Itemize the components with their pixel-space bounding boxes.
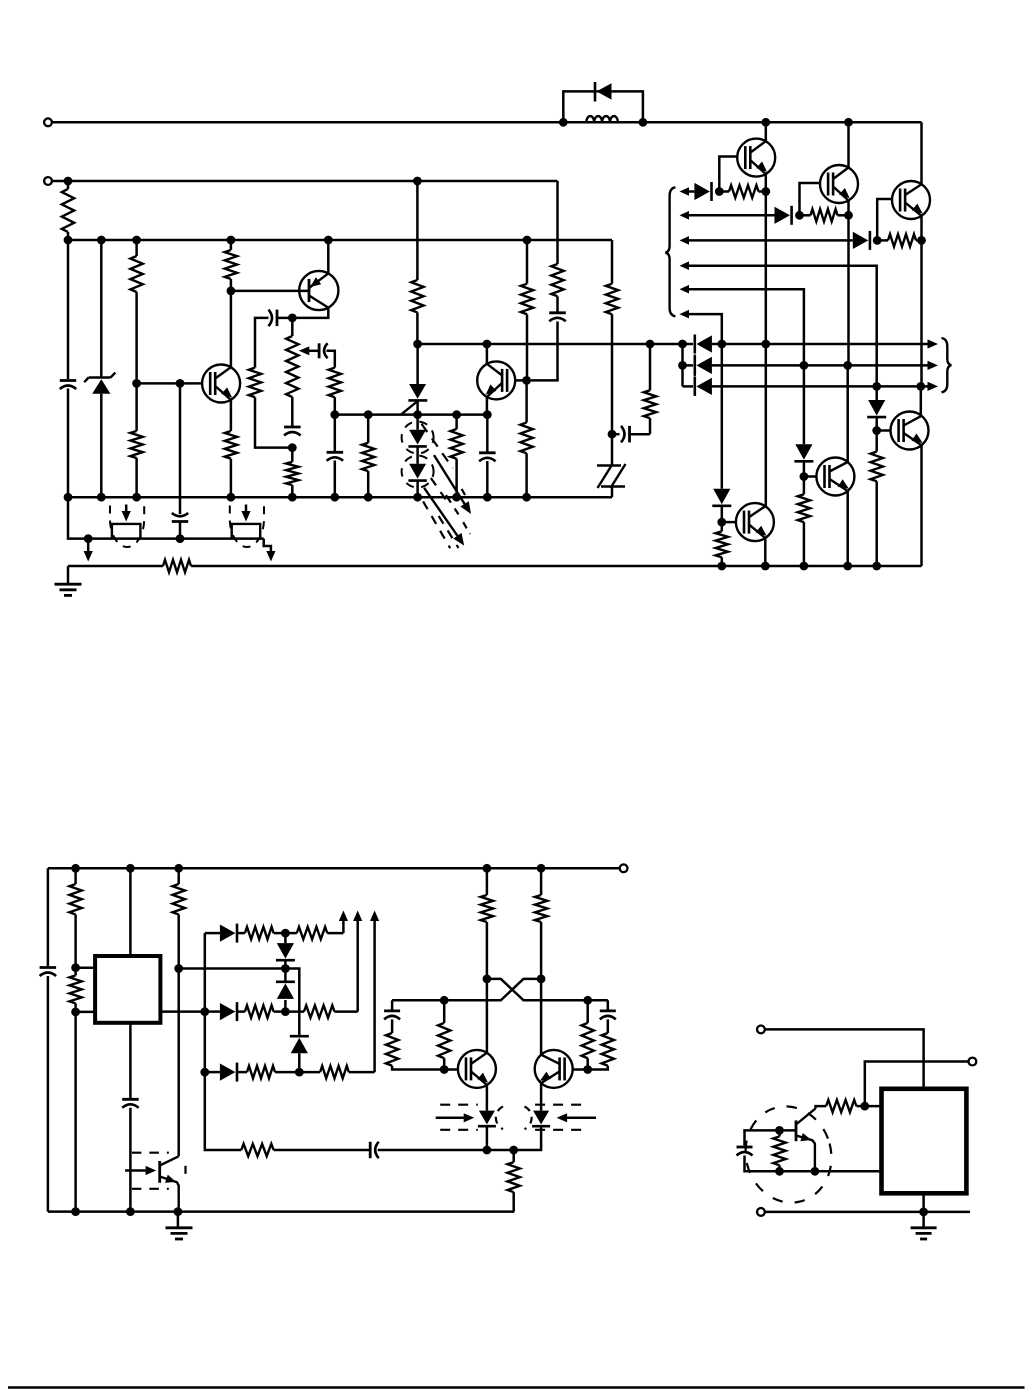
trimmer RT1 dashed outline [110,506,144,548]
wire QC base [780,1129,797,1132]
wire y968 corner [285,969,299,1037]
resistor R23 [69,968,81,1012]
phototransistor PT1 [160,1156,179,1211]
arrow winding row 6 [680,310,690,319]
node Q7 collector junction [227,287,236,296]
diode D1 [694,182,711,201]
wire Q8 collector to cap [292,308,328,318]
wire pin2 stub [76,1011,96,1014]
node LR ground [919,1208,928,1217]
wire cross 1 [487,979,608,1000]
node QC base [775,1126,784,1135]
wire second rail [52,180,558,183]
diode D4 column [721,344,724,489]
transistor Q1 [737,139,775,177]
diode D6 [867,400,886,417]
node IC pin2 [71,1008,80,1017]
wire column x205 [204,933,207,1150]
wire Q9 collector [486,344,489,364]
transistor Q4 [736,503,774,541]
node trim x180 [176,534,185,543]
capacitor C3 [269,310,278,327]
node left net top [440,996,449,1005]
trimmer RT2 wiper arrow [241,505,250,522]
resistor R15 [551,264,563,296]
LED PC1 (emitting) [408,415,426,464]
node rowL3 left [200,1068,209,1077]
wire column x848 mid [847,215,850,365]
node rowL1 mid [281,929,290,938]
node second rail R2 top [64,177,73,186]
node bus-bottom x101 [97,493,106,502]
diode D5 [794,444,813,461]
diode D6 column [875,386,878,400]
terminal input A [44,118,52,126]
transistor Q2 [820,165,858,203]
resistor R24 [173,868,185,968]
node bus-bottom x487 [483,493,492,502]
node y344 x487 [483,340,492,349]
capacitor C5 (pot bottom) [284,426,301,436]
trimmer RT2 dashed outline [230,506,264,548]
wire column x921 mid [920,240,923,386]
node chain x487 [483,1146,492,1155]
wire y968 line [179,967,286,970]
node on top rail (Q1 collector) [761,118,770,127]
transistor Q3 [892,181,930,219]
capacitor C6 column [334,415,337,498]
node y414 x487 [483,410,492,419]
wire x557 column [556,181,559,264]
wire row C right [712,385,929,388]
diode D5 column [803,365,806,444]
ground symbol 2 [166,1228,193,1239]
node row1 x766 [761,187,770,196]
node right net bottom [583,1065,592,1074]
resistor R25 [237,927,286,939]
resistor R3 (x137 upper) [130,240,142,383]
arrow winding row 5 [680,285,690,294]
resistor R27 [237,1005,286,1017]
trimmer RT1 wiper arrow [122,505,131,522]
wire chain to astable [378,1149,487,1152]
zener diode ZD1 [84,373,115,394]
page footer rule [8,1386,1025,1389]
resistor R17 (x650) [644,344,656,434]
wire row6 [688,314,722,344]
node rowC x921 [916,382,925,391]
node Q5 base tap [800,472,809,481]
node Q6 base tap [872,426,881,435]
diode D9 (row B) [695,356,712,375]
capacitor C8 [549,296,566,321]
wire chain 487-514 [487,1149,514,1152]
light dash lines [422,424,471,548]
resistor R19 [798,477,810,567]
wire top rail right corner [920,122,923,184]
resistor R28 [285,1005,357,1017]
diode D4 [712,489,731,506]
resistor R18 [716,522,728,566]
transistor QA [458,1050,496,1088]
wire C3 to R7 loop [255,318,269,368]
ground symbol 3 [911,1228,937,1239]
capacitor C13 [384,1000,400,1019]
arrow to ground line 1 [84,539,93,562]
brace left [665,187,675,316]
wire column x766 low [765,344,768,506]
wire QA collector [486,979,489,1053]
capacitor C11 [122,1099,139,1108]
node bus-bottom x137 [132,493,141,502]
arrow up 2 [353,911,362,1012]
node y414 x457 [452,410,461,419]
resistor R40 [773,1130,785,1171]
pot wiper arrow [299,346,319,355]
resistor R29 [237,1066,299,1078]
wire R39 to box [865,1105,882,1108]
node x137 base tap [132,379,141,388]
node rowC x877 [872,382,881,391]
wire D13 low [298,1053,301,1072]
wire Q4 base [722,521,737,524]
potentiometer VR1 [286,318,298,426]
node bus x231 [227,236,236,245]
dashed diode gang link [694,355,696,377]
node rail x76 [71,864,80,873]
terminal input B [44,177,52,185]
wire bus y497 [68,496,612,499]
opto arrow left [436,1113,475,1122]
wire base loop bottom [745,1156,882,1172]
terminal lower rail [620,864,628,872]
wire LR second [865,1062,969,1107]
resistor R36 [573,1019,614,1069]
node bus-bottom x68 [64,493,73,502]
resistor R35 [438,1000,450,1069]
node IC pin1 [71,963,80,972]
diode D14 [205,1002,237,1021]
resistor R37 [582,1000,594,1069]
wire LR top [765,1029,924,1088]
diode D12b (up) [276,969,295,1012]
node chain x514 [509,1146,518,1155]
node y414 x335 [330,410,339,419]
node pot top [288,314,297,323]
resistor R31 [241,1144,369,1156]
resistor R6 (Q7 emitter) [225,400,237,497]
resistor R16 [606,284,618,435]
wire Q8 emitter up [327,240,330,273]
diode D15 [205,1063,237,1082]
wire Q5 emitter [846,491,849,566]
spark gap SG1 [597,434,626,497]
node R39 right [860,1102,869,1111]
wire x179 down [177,969,180,1157]
node on top rail (Q2 collector) [844,118,853,127]
node y414 x417 [413,410,422,419]
capacitor C6 [327,452,344,461]
arrow row A [928,339,939,348]
wire ground bus [68,565,922,568]
wire row2 [688,214,775,217]
wire Q6 emitter [920,445,923,566]
transistor Q5 [816,458,854,496]
arrow up 1 [339,911,348,934]
node rail x179 [174,864,183,873]
thyristor SCR1 [401,344,427,415]
node bus x101 [97,236,106,245]
terminal LR-3 [757,1208,765,1216]
arrow winding row 4 [680,261,690,270]
wire QB collector [540,979,543,1055]
node row2 base tap [795,211,804,220]
capacitor C1 column [67,240,70,497]
inductor L1 [586,116,618,122]
node rowB x804 [800,361,809,370]
capacitor C12 [370,1142,379,1158]
resistor Rr3 [877,234,921,246]
node bus-bottom x231 [227,493,236,502]
node rowB x682 [678,361,687,370]
capacitor C1 [60,381,76,390]
brace right [942,338,952,392]
diode D2 [775,206,792,225]
LED PC2 dashed circle [402,456,434,488]
IC U1 box [95,956,160,1023]
capacitor C2 column [179,383,182,538]
resistor R32 [481,868,493,979]
wire bottom chain [205,1149,242,1152]
node cross left [483,975,492,984]
wire Q3 base [877,199,892,240]
wire x612 column [611,240,614,284]
node bus x68 [64,236,73,245]
resistor R7 [249,368,292,448]
node bus2 x766 [761,562,770,571]
wire line y344 [418,343,693,346]
node on top rail (snubber right) [639,118,648,127]
opto arrow right [557,1113,596,1122]
resistor R20 [871,431,883,567]
wire D6-R [875,417,878,430]
node y344 x417 [413,340,422,349]
wire Q9 emitter [486,397,489,415]
resistor R34 [386,1019,458,1069]
resistor R26 [285,927,343,939]
arrow winding row 1 [680,187,690,196]
arrow row C [928,382,939,391]
node bus2 x804 [800,562,809,571]
transistor Q9 (mirrored) [477,361,515,399]
node rowL2 left [200,1007,209,1016]
diode D11 [220,924,237,943]
node bus x137 [132,236,141,245]
LED PC2 (emitting) [408,464,426,497]
wire Q2 base [800,183,821,215]
diode D10 (row C) [695,377,712,396]
wire top rail [52,121,922,124]
wire C8 to Q9 base [531,322,558,381]
wire cap C3 left plate lead [277,317,292,320]
diode D8 (row A) [695,335,712,354]
node rowA x766 [761,340,770,349]
node rowL3 mid [295,1068,304,1077]
arrow up 3 [370,911,379,1073]
node rail x541 [537,864,546,873]
node row3 base tap [873,236,882,245]
wire row5 [688,289,804,365]
light arrow 2 [424,488,464,546]
wire Q5 base [804,475,817,478]
node bus-bottom x417 [413,493,422,502]
node diodepair mid [281,964,290,973]
node lower-rail x179 [174,1207,183,1216]
capacitor C9 [612,426,650,443]
wire IC bottom pin [129,1023,132,1098]
wire C4 to R8 [327,351,335,368]
phototransistor dashed box [132,1153,186,1189]
node y344 x650 [646,340,655,349]
terminal LR-1 [757,1026,765,1034]
wire pin1 stub [76,966,96,969]
wire trimmer line [68,497,264,538]
wire line y414 [335,413,488,416]
LED PC3 [478,1085,496,1150]
wire cross 2 [392,979,541,1000]
resistor R14 (x527 bottom) [520,380,532,497]
ground symbol main [55,584,82,595]
node loop bottom x779 [775,1167,784,1176]
diode D12a (down) [276,933,295,968]
resistor R22 [69,868,81,967]
wire R39 left [816,1106,827,1108]
resistor R30 [299,1066,374,1078]
wire D4-R [721,506,724,522]
node bus2 x848 [843,562,852,571]
wire row3 [688,239,853,242]
node rowL2 mid [281,1007,290,1016]
zener diode ZD1 column [100,240,103,497]
node loop bottom x815 [811,1167,820,1176]
node bus-bottom x527 [522,493,531,502]
node rail2 x417 [413,177,422,186]
node trim x88 [84,534,93,543]
node rail x130 [126,864,135,873]
node base/cap tap x180 [176,379,185,388]
node Q9 base [522,376,531,385]
wire D5-R [803,461,806,476]
node Q4 base tap [717,518,726,527]
resistor R11 (x417) [411,280,423,312]
node bus-bottom x368 [364,493,373,502]
trimmer RT1 element [112,524,140,539]
LED PC1 dashed circle [402,422,434,454]
node rowA x722 [717,340,726,349]
wire row B right [712,364,929,367]
node spark gap top [608,430,617,439]
transistor Q6 [891,412,929,450]
node y414 x368 [364,410,373,419]
wire Q1 base [719,157,737,192]
wire Q1 emitter [765,174,768,192]
wire lower rail bottom [48,1210,514,1213]
wire column x766 mid [765,192,768,345]
node lower-rail x130 [126,1207,135,1216]
wire row L2 stub [160,1010,204,1013]
wire x76 down [74,1012,77,1212]
wire Q6 base [877,429,891,432]
arrow to ground line 2 [264,539,276,562]
LED PC4 [514,1083,550,1150]
arrow winding row 2 [680,211,690,220]
wire rail2 drop x417 [416,181,419,344]
wire C11 down [129,1108,132,1212]
capacitor C10 [40,968,57,977]
wire LR bottom [765,1211,970,1214]
wire snubber loop [563,91,643,122]
wire diode stack left link [683,344,694,386]
diode D13 [290,1036,309,1053]
transistor Q7 [202,365,240,403]
wire column x921 low [920,386,923,415]
resistor R13 (x527 top) [521,240,533,380]
node right net top [583,996,592,1005]
capacitor C14 [600,1000,616,1019]
wire row A right [712,343,929,346]
transistor QB (mirrored) [535,1050,573,1088]
resistor R10 [362,415,374,498]
wire row1 [688,190,694,193]
transistor QC (discrete) [796,1109,816,1172]
node y344 x682 [678,340,687,349]
wire Q3 emitter [920,216,923,241]
node x179 junction [174,964,183,973]
node bus2 x877 [872,562,881,571]
node bus2 x722 [717,562,726,571]
diode D3 [853,231,870,250]
phototransistor light arrow [125,1166,156,1175]
wire IC top pin [129,868,132,956]
capacitor C4 (wiper) [319,343,328,358]
node cross right [537,975,546,984]
wire Q1 collector [765,122,768,141]
resistor R21 (ground line) [163,560,191,572]
resistor R5 (x231 top) [225,240,237,291]
wire Q4 emitter [764,538,767,566]
resistor R39 [826,1100,865,1112]
wire row L1 [205,932,220,935]
node row1 base tap [715,187,724,196]
resistor Rr1 [719,185,766,197]
resistor R9 [286,448,298,498]
node bus-bottom x335 [330,493,339,502]
opto dashed lines [440,1105,586,1130]
node bus x527 [523,236,532,245]
resistor R33 [535,868,547,979]
wire Q9 base [516,379,527,382]
resistor R38 [508,1150,520,1212]
node rowB x848 [843,361,852,370]
resistor R8 [329,368,341,415]
IC U2 box [882,1089,967,1194]
wire Q8 base line [231,290,309,293]
node bus x328 [324,236,333,245]
capacitor C7 [479,453,496,462]
resistor R2 [62,181,74,240]
arrow winding row 3 [680,236,690,245]
transistor Q8 (PNP) [299,271,338,310]
